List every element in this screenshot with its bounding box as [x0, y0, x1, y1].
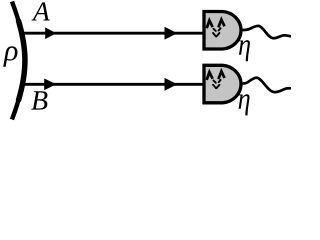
wire mode B [24, 83, 203, 86]
label rho [3, 46, 17, 66]
arrowhead B1 [44, 79, 56, 91]
detector D_B click icon [207, 72, 213, 80]
efficiency label eta (top) [239, 40, 250, 61]
state source paren (rho) [12, 2, 25, 120]
efficiency label eta (bottom) [239, 94, 250, 115]
wire mode A [24, 32, 203, 35]
output wire bottom [243, 78, 292, 92]
detector D_B body [204, 65, 241, 103]
detector D_A body [204, 12, 241, 50]
arrowhead A2 [165, 27, 178, 40]
detector D_A click icon [207, 20, 213, 28]
arrowhead B2 [165, 78, 178, 91]
output wire top [243, 26, 292, 38]
paren mid thickening [12, 2, 25, 120]
mode label A [32, 2, 50, 20]
mode label B [31, 91, 47, 109]
arrowhead A1 [45, 27, 56, 39]
